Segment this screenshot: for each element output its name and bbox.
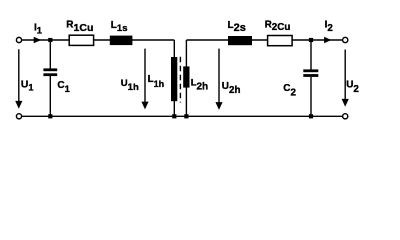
wire top-left rail [22, 39, 174, 41]
wire C2 branch upper [310, 40, 312, 70]
inductor L2s [228, 36, 252, 45]
svg-text:C2: C2 [283, 83, 296, 99]
svg-text:U1: U1 [21, 79, 34, 92]
node junction L1h bottom [172, 114, 176, 118]
terminal bottom-right [343, 114, 348, 119]
svg-text:U2: U2 [346, 80, 359, 95]
wire L2h bottom stem [185, 87, 187, 116]
terminal top-right [343, 37, 348, 42]
node junction C2 top [309, 38, 313, 42]
svg-text:U1h: U1h [121, 78, 139, 93]
wire L1h bottom stem [173, 101, 175, 116]
node junction C1 top [48, 38, 52, 42]
svg-text:I2: I2 [325, 20, 334, 35]
svg-text:L1h: L1h [148, 74, 165, 89]
inductor L1s [110, 36, 133, 46]
arrow U1 [15, 49, 22, 108]
wire bottom rail [22, 115, 342, 117]
node junction C1 bottom [48, 114, 52, 118]
svg-text:I1: I1 [34, 23, 42, 36]
inductor L1h [171, 57, 177, 101]
wire L2h top stem [185, 40, 187, 67]
svg-text:L1s: L1s [111, 20, 128, 34]
svg-text:U2h: U2h [222, 81, 241, 96]
arrow I2 [324, 37, 331, 44]
svg-text:L2h: L2h [191, 77, 208, 92]
node junction L2h bottom [184, 114, 188, 118]
node junction C2 bottom [309, 114, 313, 118]
resistor R1Cu [69, 35, 93, 45]
inductor L2h [183, 66, 189, 87]
svg-text:R1Cu: R1Cu [66, 20, 93, 34]
resistor R2Cu [268, 36, 293, 46]
svg-text:C1: C1 [57, 80, 69, 94]
terminal bottom-left [16, 114, 21, 119]
arrow U2 [342, 50, 349, 107]
svg-text:R2Cu: R2Cu [265, 19, 291, 33]
wire L1h top stem [173, 40, 175, 58]
arrow I1 [34, 37, 42, 44]
wire C1 branch upper [49, 40, 51, 69]
capacitor C1 [43, 68, 57, 76]
terminal top-left [16, 37, 21, 42]
arrow U1h [141, 49, 148, 110]
svg-text:L2s: L2s [228, 20, 246, 34]
wire C2 branch lower [310, 77, 312, 117]
arrow U2h [215, 49, 222, 110]
transformer core [179, 57, 181, 103]
capacitor C2 [303, 69, 318, 77]
wire C1 branch lower [49, 76, 51, 116]
wire top-right rail [186, 39, 342, 41]
